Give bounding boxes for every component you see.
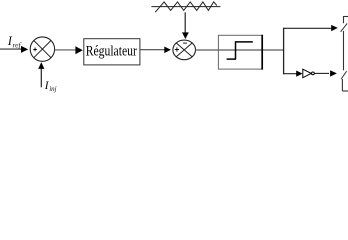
svg-text:Régulateur: Régulateur [86,44,137,60]
svg-text:ref: ref [13,40,22,49]
svg-text:inj: inj [49,85,56,93]
